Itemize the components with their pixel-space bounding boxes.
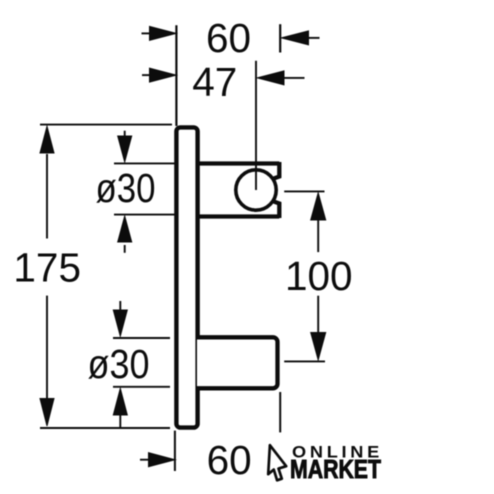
svg-text:60: 60 [206, 15, 251, 61]
svg-text:ø30: ø30 [88, 341, 150, 387]
svg-text:60: 60 [207, 437, 252, 483]
dim o30 top upper ext line [114, 162, 175, 164]
dim 47 left arrow [142, 74, 150, 76]
dim o30 bottom upper ext line [113, 337, 170, 339]
bottom stub outline [197, 337, 278, 388]
dim o30 top lower ext line [114, 214, 175, 216]
svg-text:ø30: ø30 [96, 165, 156, 211]
svg-text:47: 47 [192, 59, 237, 105]
dim 175 line upper part with up arrow [46, 154, 48, 239]
dim o30 bottom up arrow [119, 414, 121, 429]
dim 60 bottom arrow [140, 459, 150, 461]
dim 100 line lower part with down arrow [317, 296, 319, 333]
extension line at pipe end for 60 [279, 24, 281, 52]
top pipe top line [197, 161, 279, 165]
dim o30 bottom lower ext line [113, 386, 170, 388]
dim o30 bottom down arrow [119, 301, 121, 312]
dim 100 bottom ref line [284, 360, 325, 362]
dim 175 top ext line [40, 124, 172, 126]
dim 60 top right arrow [309, 37, 320, 39]
dim 60 top left arrow [142, 32, 151, 34]
top pipe end cap lower [274, 202, 280, 219]
dim 175 line lower part with down arrow [46, 296, 48, 399]
dim 175 bottom ext line [40, 427, 170, 429]
svg-text:100: 100 [285, 253, 353, 299]
ball at pipe end [236, 170, 276, 210]
svg-text:175: 175 [13, 244, 81, 290]
dim 100 top ref line [284, 190, 324, 192]
dim o30 top down arrow [124, 131, 126, 138]
extension line below stub end [279, 392, 281, 432]
extension line below plate [174, 431, 176, 471]
extension line at wall face (top) [175, 25, 177, 126]
top pipe end cap upper [274, 162, 280, 179]
dim o30 top up arrow [124, 245, 126, 253]
svg-text:MARKET: MARKET [290, 456, 381, 484]
extension line to ball centre for 47 [255, 61, 257, 190]
top pipe bottom line [197, 214, 279, 218]
watermark cursor icon [268, 445, 286, 480]
wall plate outline [176, 127, 197, 427]
dim 100 line upper part with up arrow [317, 219, 319, 252]
dim 47 right arrow [284, 77, 305, 79]
